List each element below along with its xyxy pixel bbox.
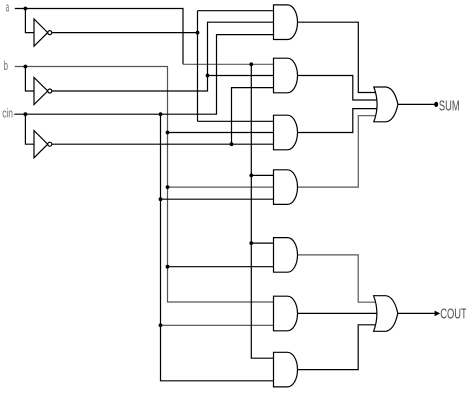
wire b-not from bubble to trunk then up to gate1 mid: [52, 22, 275, 91]
junction dot b-not gate2: [206, 74, 210, 78]
junction dot b gate3: [166, 131, 170, 135]
or gate COUT: [374, 296, 398, 332]
wire a-not to gate1 top: [198, 10, 276, 12]
wire gate6 out to or2 in2: [296, 312, 378, 314]
or gate SUM: [374, 87, 398, 122]
wire or1 out to SUM: [398, 103, 435, 105]
wire b to gate5 bottom: [168, 266, 276, 268]
wire or2 out to COUT: [398, 312, 435, 314]
wire gate3 out to or1 in3: [296, 109, 378, 133]
junction dot a gate4: [249, 174, 253, 178]
wire a to gate5 top: [251, 242, 275, 244]
junction dot a-not: [196, 31, 200, 35]
junction dot cin gate6: [159, 323, 163, 327]
svg-text:SUM: SUM: [439, 98, 460, 115]
wire a-not trunk vertical: [197, 11, 199, 122]
junction dot cin gate4: [159, 197, 163, 201]
wire a input horizontal then down: [15, 9, 183, 65]
junction dot b gate5: [166, 265, 170, 269]
and gate G6: [274, 296, 298, 331]
junction dot cin-not gate2: [230, 142, 234, 146]
wire b branch to inverter: [25, 67, 34, 92]
wire b to gate3 mid: [168, 132, 276, 134]
wire gate4 out to or1 in4: [296, 116, 378, 187]
wire a-not to gate3 top: [198, 120, 276, 122]
junction dot a gate5: [249, 241, 253, 245]
svg-text:a: a: [6, 0, 10, 14]
wire gate7 out to or2 in3: [296, 325, 378, 370]
inverter cin: [34, 131, 48, 158]
svg-text:cin: cin: [2, 106, 13, 121]
wire a-not from bubble to trunk: [52, 32, 198, 34]
and gate G2: [274, 58, 298, 93]
and gate G5: [274, 238, 298, 273]
inverter b: [34, 77, 48, 104]
svg-text:COUT: COUT: [440, 305, 466, 322]
wire a trunk down: [251, 64, 275, 358]
wire cin-not up to gate2 bottom: [232, 88, 276, 145]
wire cin trunk down: [161, 114, 276, 381]
and gate G4: [274, 170, 298, 205]
junction dot cin trunk top: [159, 112, 163, 116]
inverter a: [34, 19, 48, 46]
wire a branch to inverter: [25, 9, 34, 33]
wire cin input then up to gate1 bottom: [14, 35, 275, 115]
wire cin to gate4 bottom: [161, 198, 276, 200]
wire gate2 out to or1 in2: [296, 76, 378, 101]
terminal dot SUM: [434, 102, 438, 107]
wire cin branch to inverter: [25, 114, 34, 144]
and gate G1: [274, 5, 298, 40]
wire cin to gate6 bottom: [161, 324, 276, 326]
wire b input then down trunk: [15, 67, 275, 303]
wire b-not to gate2 mid: [208, 75, 276, 77]
junction dot a gate2: [249, 62, 253, 66]
wire gate5 out to or2 in1: [296, 255, 378, 302]
wire cin-not from bubble to gate3 bottom: [52, 143, 275, 145]
wire gate1 out to or1 in1: [296, 22, 378, 92]
wire a to gate4 top: [251, 174, 275, 176]
junction dot cin input: [24, 112, 28, 116]
wire a to gate2 top: [183, 63, 275, 65]
and gate G3: [274, 115, 298, 150]
wire b to gate4 mid: [168, 186, 276, 188]
junction dot a input: [24, 7, 28, 11]
junction dot b gate4: [166, 185, 170, 189]
junction dot b input: [24, 65, 28, 69]
and gate G7: [274, 352, 298, 387]
svg-text:b: b: [4, 58, 8, 73]
arrowhead COUT: [435, 311, 441, 317]
